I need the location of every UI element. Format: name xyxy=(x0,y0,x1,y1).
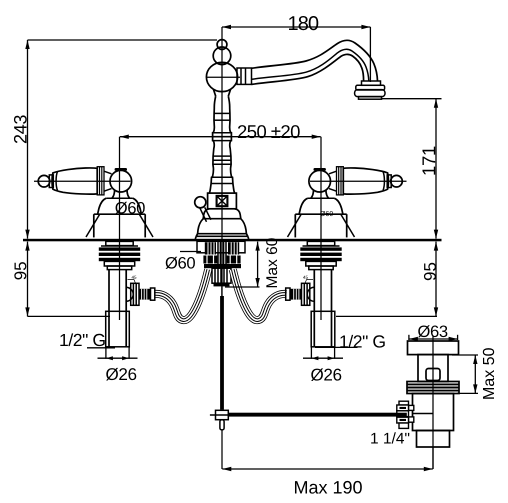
lever tip ball left xyxy=(38,175,50,187)
diameter 26 bracket right xyxy=(303,347,343,360)
column neck below ball xyxy=(214,90,231,97)
drain gasket stack xyxy=(407,382,459,394)
lever neck right xyxy=(329,171,337,191)
drain flange xyxy=(408,341,459,355)
hose fitting crown nut left xyxy=(131,283,139,305)
column square block xyxy=(208,193,237,209)
drain neck xyxy=(418,355,448,382)
pop-up rod vertical xyxy=(220,296,224,410)
dimension 95 right label xyxy=(424,263,436,280)
centreline spout ball horizontal xyxy=(207,76,240,78)
dimension 250 pm 20 line xyxy=(120,136,321,138)
label 1/2 G right xyxy=(340,335,384,348)
centre stud left (threaded) xyxy=(205,242,216,254)
handle ball right xyxy=(309,170,331,192)
spout outlet lip xyxy=(359,97,382,100)
tiny 45 annotation left xyxy=(128,276,137,284)
dimension Max 190 label xyxy=(295,481,362,494)
label 1/2 G left xyxy=(60,333,104,346)
lever body left xyxy=(52,168,97,194)
dimension 180 line xyxy=(222,26,370,28)
centreline left lever horizontal xyxy=(34,180,131,182)
lever neck left xyxy=(104,171,112,191)
centre bell tier 1 xyxy=(203,209,241,219)
handle lower neck right xyxy=(311,190,329,199)
spout body ball xyxy=(206,62,237,91)
valve plate 1 left xyxy=(106,241,133,245)
fixing square with cross xyxy=(217,196,228,206)
tiny 45 annotation right xyxy=(305,280,313,284)
dimension 171 extension (spout outlet bottom) xyxy=(381,98,442,100)
hose ferrule right xyxy=(286,288,290,300)
spout arm middle line xyxy=(252,49,369,81)
drain overflow square xyxy=(426,369,440,381)
label diameter 60 left handle xyxy=(115,202,144,214)
spout collar xyxy=(237,68,252,84)
centre nut left xyxy=(203,256,217,264)
drain tailpipe xyxy=(417,431,450,448)
hose fitting thread left (black) xyxy=(139,289,151,300)
dimension 95 right extension xyxy=(336,315,437,317)
centre bell tier 2 xyxy=(198,219,247,234)
centre stud right (threaded) xyxy=(228,242,239,254)
centreline right handle xyxy=(320,137,322,320)
valve plate 1 right xyxy=(307,241,334,245)
label diameter 26 right xyxy=(311,368,341,381)
G thread section left xyxy=(106,311,130,347)
centre bottom bar xyxy=(204,264,241,268)
centreline faucet column xyxy=(221,27,223,296)
lever collar left xyxy=(97,167,104,195)
dimension Max 60 line xyxy=(257,242,259,287)
lever tip collar right xyxy=(387,175,391,188)
handle base bell left xyxy=(98,198,142,214)
dimension Max 50 extensions xyxy=(452,354,478,356)
dimension 95 left label xyxy=(14,262,26,279)
dimension 95 right line xyxy=(435,242,437,317)
dimension 171 label xyxy=(422,147,435,175)
valve plate 2 right xyxy=(306,261,336,266)
lever collar right xyxy=(337,167,344,195)
G thread section right xyxy=(311,311,335,347)
valve gasket stack right xyxy=(300,246,341,261)
flexible hose left xyxy=(155,270,209,321)
centre bell base rings xyxy=(196,234,248,237)
dimension Max 190 extensions xyxy=(221,431,223,470)
valve tube right xyxy=(314,270,331,347)
label diameter 60 centre xyxy=(166,257,195,269)
spout outlet ring 3 xyxy=(355,90,385,97)
pop-up knob stem xyxy=(200,207,211,221)
spout arm top edge xyxy=(252,40,378,81)
hose fitting crown nut right xyxy=(302,283,310,305)
centre flange below deck xyxy=(197,241,245,253)
dimension 250 pm 20 label xyxy=(238,125,300,138)
pop-up rod upper xyxy=(221,287,223,297)
centre supply pipes xyxy=(218,241,226,264)
handle ball left xyxy=(110,170,132,192)
centreline right lever horizontal xyxy=(310,180,407,182)
column body with rings xyxy=(209,96,234,193)
centreline drain xyxy=(432,336,434,469)
pop-up rod clevis xyxy=(216,410,229,419)
dimension 95 left line xyxy=(27,242,29,317)
valve gasket stack left xyxy=(99,246,140,261)
pop-up rod pin xyxy=(220,420,224,430)
dimension 180 label xyxy=(289,16,318,30)
pop-up knob xyxy=(195,197,206,208)
handle lower neck left xyxy=(112,190,130,199)
spout outlet ring 1 xyxy=(362,81,381,85)
hose fitting thread right (black) xyxy=(290,289,302,300)
dimension 180 extension (spout outlet) xyxy=(369,27,371,82)
handle base bell right xyxy=(299,198,343,214)
dimension Max 190 line xyxy=(222,468,432,470)
hose fitting dome right xyxy=(307,287,314,301)
diameter 26 bracket left xyxy=(98,347,138,360)
hose ferrule left xyxy=(151,288,155,300)
valve plate 3 right xyxy=(309,266,333,270)
centre nut right xyxy=(227,256,241,264)
dimension Max 60 label xyxy=(266,238,277,287)
dimension 171 line xyxy=(435,99,437,239)
handle ball cap left xyxy=(115,168,127,171)
spout outlet ring 2 xyxy=(356,85,385,90)
drain body xyxy=(413,394,454,431)
spout finial lower ball xyxy=(213,47,231,65)
valve plate 2 left xyxy=(104,261,134,266)
dimension diameter 63 label xyxy=(418,325,447,337)
right valve assembly (mirrored) xyxy=(286,167,403,361)
dimension 243 line xyxy=(27,40,29,239)
drain extension lines for diameter 63 xyxy=(408,335,410,340)
pop-up horizontal rod xyxy=(228,413,406,417)
dimension 95 left extension xyxy=(28,315,111,317)
spout arm bottom edge xyxy=(252,54,364,84)
dimension 243 extension (top of faucet) xyxy=(28,39,218,41)
label diameter 26 left xyxy=(106,368,136,381)
hose fitting dome left xyxy=(126,287,133,301)
drain knurled nut xyxy=(397,401,414,428)
handle base skirt right xyxy=(288,214,355,237)
flexible hose right xyxy=(233,270,287,321)
lever tip ball right xyxy=(391,175,403,187)
dimension Max 50 label xyxy=(483,348,494,399)
lever tip collar left xyxy=(49,175,53,188)
dimension 243 label xyxy=(14,115,27,143)
valve tube left xyxy=(109,270,126,347)
label diameter 60 right handle (tiny) xyxy=(320,211,333,216)
dimension Max 60 extension xyxy=(225,286,260,288)
dimension diameter 63 line xyxy=(409,338,458,340)
lever body right xyxy=(343,168,388,194)
left valve assembly xyxy=(38,167,155,361)
valve plate 3 left xyxy=(107,266,131,270)
label 1 1/4 inch xyxy=(371,432,409,443)
handle base skirt left xyxy=(86,214,153,237)
dimension Max 50 line xyxy=(474,355,476,393)
centre connector block (hatched) xyxy=(212,268,231,286)
spout finial top ball xyxy=(217,40,227,50)
handle ball cap right xyxy=(314,168,326,171)
centreline left handle xyxy=(119,137,121,320)
deck mounting line xyxy=(23,239,442,242)
tiny 45 text right xyxy=(303,276,308,279)
